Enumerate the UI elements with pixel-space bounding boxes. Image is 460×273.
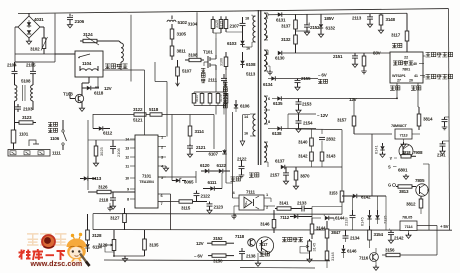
label 2152 <box>310 25 320 30</box>
label 6122 <box>217 163 227 168</box>
label 3152 <box>213 236 223 241</box>
svg-text:2104: 2104 <box>7 63 17 68</box>
svg-text:3141: 3141 <box>279 201 289 206</box>
wire pin5 right <box>158 171 196 183</box>
svg-text:3152: 3152 <box>213 236 223 241</box>
svg-text:3870: 3870 <box>300 174 310 179</box>
capacitor 2141b <box>440 141 450 154</box>
wire AC line y54 <box>15 53 75 55</box>
transistor 7116 <box>359 248 379 270</box>
resistor 3117 <box>405 13 409 52</box>
capacitor 2123 <box>207 202 213 209</box>
svg-text:6137: 6137 <box>275 159 285 164</box>
svg-text:6118: 6118 <box>94 91 104 96</box>
svg-text:7114: 7114 <box>405 224 414 229</box>
label 3150 <box>213 259 223 264</box>
svg-text:2106: 2106 <box>75 19 85 24</box>
svg-text:5118: 5118 <box>149 107 159 112</box>
svg-text:7116: 7116 <box>359 256 369 261</box>
label 3142 <box>298 154 308 159</box>
resistor 3148b <box>325 246 329 268</box>
svg-text:3129: 3129 <box>98 243 108 248</box>
label 3135 <box>149 243 159 248</box>
label 5108 <box>21 79 31 84</box>
label 12V bottom <box>196 241 204 246</box>
svg-text:1111: 1111 <box>52 151 61 156</box>
svg-text:3105: 3105 <box>177 32 187 37</box>
pin 7 <box>158 201 179 206</box>
wire x242 aux <box>240 115 250 146</box>
label 3146 <box>260 222 270 227</box>
pin 13 <box>125 146 135 151</box>
label 6108 <box>246 62 256 67</box>
label 3104 <box>188 22 198 27</box>
svg-text:40: 40 <box>413 62 417 66</box>
wire x226 vertical <box>226 70 233 183</box>
label 3157 <box>337 118 347 123</box>
resistor 3114 <box>188 126 192 136</box>
svg-text:3813: 3813 <box>399 189 409 194</box>
svg-text:3117: 3117 <box>391 33 401 38</box>
svg-text:3148: 3148 <box>330 252 335 261</box>
svg-text:2107: 2107 <box>230 24 240 29</box>
label 2113 <box>352 16 362 21</box>
resistor 3870 <box>293 167 298 189</box>
svg-text:3145: 3145 <box>312 243 317 252</box>
pin 5 <box>266 61 269 66</box>
resistor 3025 <box>94 140 98 161</box>
label 3156 <box>385 248 395 253</box>
svg-text:TEA1504: TEA1504 <box>139 180 154 184</box>
label 2107 <box>230 24 240 29</box>
label 5118 <box>149 107 159 112</box>
svg-text:6145: 6145 <box>360 217 365 226</box>
label 3148b vertical <box>330 252 335 261</box>
resistor 3105 <box>170 24 174 46</box>
resistor 3115p <box>220 16 228 32</box>
svg-text:3812: 3812 <box>406 202 416 207</box>
label 5113 <box>246 72 256 77</box>
label 3124 <box>83 32 93 37</box>
label -6V bottom <box>194 254 203 259</box>
pin1 opto <box>264 192 271 202</box>
label 2134 <box>350 236 360 241</box>
label 2105 <box>26 63 36 68</box>
capacitor 2122b <box>239 160 245 178</box>
label 场同步信号 <box>423 74 453 79</box>
inductor 5102 <box>167 16 176 23</box>
pin 9 <box>127 187 135 192</box>
svg-text:2157: 2157 <box>270 173 280 178</box>
fuse 1101 <box>11 130 16 149</box>
svg-text:3150: 3150 <box>213 259 223 264</box>
label 6106 <box>240 104 250 109</box>
wire +5V <box>382 226 437 256</box>
svg-text:G: G <box>388 183 391 188</box>
label 12V right <box>349 97 357 102</box>
label 2153 <box>302 102 312 107</box>
svg-text:– 6V: – 6V <box>194 254 203 259</box>
transistor T103 <box>63 88 85 111</box>
ground under 3025 <box>93 161 98 166</box>
svg-text:6134: 6134 <box>263 82 273 87</box>
svg-text:3115: 3115 <box>181 206 191 211</box>
capacitor 2141 <box>442 117 450 130</box>
diode 6144 <box>324 215 334 221</box>
resistor 3135 <box>114 230 146 256</box>
svg-text:2154: 2154 <box>303 121 313 126</box>
label 3144 <box>316 226 326 231</box>
resistor 3154 <box>368 226 372 248</box>
svg-text:T101: T101 <box>203 50 213 55</box>
secondary 2 <box>264 50 268 71</box>
svg-text:3153: 3153 <box>329 191 338 196</box>
resistor 3142 <box>310 152 314 167</box>
label 3847 <box>331 230 341 235</box>
diode 6107 <box>196 149 227 154</box>
svg-text:3123: 3123 <box>22 115 32 120</box>
svg-text:3142: 3142 <box>298 154 308 159</box>
pin3 opto <box>231 206 239 219</box>
svg-text:7801: 7801 <box>402 67 411 72</box>
label 3114 <box>195 129 205 134</box>
wire x232 vertical <box>232 112 234 198</box>
potentiometer 3145 <box>300 239 317 262</box>
label 3140 <box>298 140 308 145</box>
svg-text:7111: 7111 <box>246 190 255 195</box>
capacitor 2105 <box>15 62 36 85</box>
svg-text:2155: 2155 <box>301 76 311 81</box>
svg-text:2141: 2141 <box>437 153 446 158</box>
svg-text:3025: 3025 <box>99 147 104 156</box>
diode 6118 <box>82 86 104 96</box>
svg-text:7118: 7118 <box>235 234 245 239</box>
diode 6106 <box>234 100 238 112</box>
label 2121 <box>196 145 206 150</box>
svg-text:3106: 3106 <box>220 58 224 66</box>
label 2133 <box>297 201 307 206</box>
label G pin <box>388 183 396 188</box>
wire 12V drop <box>353 99 355 117</box>
svg-text:6142: 6142 <box>361 195 371 200</box>
svg-text:6112: 6112 <box>103 131 113 136</box>
capacitor 2108 <box>110 140 116 154</box>
resistor 3847 <box>325 221 329 246</box>
label 2142 <box>394 236 404 241</box>
svg-text:7805: 7805 <box>415 178 425 183</box>
capacitor 2133b <box>344 210 356 230</box>
label 6065 <box>184 180 194 185</box>
label 电压调整 <box>282 237 303 242</box>
capacitor 2122 <box>194 191 200 202</box>
wire snub join <box>226 32 252 47</box>
label S pin <box>388 165 397 170</box>
wire verticals to pins <box>103 62 214 181</box>
diode 6122 <box>216 169 230 173</box>
pin 3 <box>158 155 166 160</box>
label 3117 <box>391 33 401 38</box>
label 4031 <box>34 17 44 22</box>
label 2106 <box>75 19 85 24</box>
svg-text:1104: 1104 <box>82 61 92 66</box>
zener 6132 <box>318 14 323 37</box>
label 6144 <box>335 216 345 221</box>
wire x93 vertical <box>92 214 94 230</box>
snubber resistor bank <box>192 70 228 115</box>
label 5102 <box>178 20 188 25</box>
svg-text:6801: 6801 <box>398 168 408 173</box>
svg-text:3127: 3127 <box>110 216 120 221</box>
svg-text:2133: 2133 <box>344 217 349 226</box>
svg-text:41: 41 <box>414 74 418 78</box>
wire mid ground rail y213 <box>93 213 342 216</box>
resistor 3143 <box>320 152 324 167</box>
svg-text:7112: 7112 <box>280 215 290 220</box>
connector 1111 <box>8 150 50 157</box>
regulator U7114 78L05 <box>400 215 417 239</box>
svg-text:83V: 83V <box>373 51 381 56</box>
label 2123 <box>214 205 224 210</box>
label 5107 <box>182 69 192 74</box>
label 7112 <box>280 215 290 220</box>
switch 1106 <box>62 120 67 150</box>
resistor 3104b <box>215 16 223 33</box>
label 6120 <box>200 163 210 168</box>
wire 185V rail <box>296 30 311 32</box>
label 6134 <box>263 82 273 87</box>
capacitor 2103 <box>15 104 21 112</box>
svg-text:5102: 5102 <box>178 20 188 25</box>
wire box drop 12V <box>95 77 99 87</box>
svg-text:6138: 6138 <box>272 131 282 136</box>
resistor 3137 <box>294 15 298 32</box>
ground above 3127 <box>107 203 113 211</box>
svg-text:6135: 6135 <box>273 101 283 106</box>
label 6112 <box>103 131 113 136</box>
capacitor 2153 <box>296 99 302 114</box>
svg-text:6130: 6130 <box>275 56 285 61</box>
svg-text:6120: 6120 <box>200 163 210 168</box>
pin 6 <box>268 96 271 101</box>
svg-text:T103: T103 <box>63 92 73 97</box>
wire right edge vertical <box>449 9 450 231</box>
diode 6130 <box>268 50 390 55</box>
pin 2 <box>266 51 269 56</box>
diode 6121 <box>201 169 216 173</box>
label Y pin <box>390 156 398 161</box>
capacitor 2138 <box>239 248 245 260</box>
svg-text:3146: 3146 <box>260 222 270 227</box>
svg-text:3124: 3124 <box>83 32 93 37</box>
label 3115 <box>181 206 191 211</box>
label 待机 above <box>392 43 402 48</box>
svg-text:3811: 3811 <box>177 49 187 54</box>
svg-text:7115: 7115 <box>383 216 388 224</box>
diode 6131 <box>268 12 282 16</box>
wire box bottom <box>82 77 89 88</box>
label 2103 <box>23 107 33 112</box>
wire degauss feed x131 <box>131 15 155 82</box>
label 3128 <box>92 233 102 238</box>
label 2108 vertical <box>116 148 121 157</box>
resistor 3150 <box>208 254 234 257</box>
pin 1 <box>266 15 269 20</box>
optocoupler U7111 <box>239 195 264 210</box>
label 6146 <box>347 249 357 254</box>
svg-text:6146: 6146 <box>347 249 357 254</box>
svg-text:6107: 6107 <box>209 152 219 157</box>
potentiometer 3129 <box>105 230 116 256</box>
resistor 5118 <box>150 113 162 116</box>
svg-text:2832: 2832 <box>326 137 336 142</box>
svg-text:3122: 3122 <box>133 107 143 112</box>
label +5V <box>440 224 449 229</box>
svg-text:3140: 3140 <box>298 140 308 145</box>
pin 9 <box>266 144 269 149</box>
svg-text:6106: 6106 <box>240 104 250 109</box>
svg-text:3126: 3126 <box>98 185 108 190</box>
svg-text:4031: 4031 <box>34 17 44 22</box>
pin 4 <box>158 164 169 172</box>
label 6135 <box>273 101 283 106</box>
label 1111 <box>52 151 61 156</box>
label 保护 <box>260 252 270 257</box>
svg-text:WT62P1: WT62P1 <box>392 74 406 78</box>
wire 7801 pin27 down <box>396 83 398 99</box>
svg-text:3114: 3114 <box>195 129 205 134</box>
label 1101 <box>19 132 29 137</box>
svg-text:6122: 6122 <box>217 163 227 168</box>
resistor 3123 <box>15 121 36 124</box>
label 2832 <box>326 137 336 142</box>
resistor 3104a <box>211 16 215 33</box>
svg-text:2105: 2105 <box>26 63 36 68</box>
capacitor 2155 <box>295 79 301 91</box>
svg-text:2118: 2118 <box>99 198 109 203</box>
diode 6112 <box>93 126 110 130</box>
wire T101 drain <box>213 33 221 55</box>
svg-text:2133: 2133 <box>297 201 307 206</box>
regulator U7113 78M08CT <box>391 123 420 147</box>
svg-text:3109: 3109 <box>219 94 223 102</box>
wire vertical x55 <box>33 14 55 62</box>
label 2151 <box>333 54 343 59</box>
ground below bridge <box>26 38 31 44</box>
svg-text:7908: 7908 <box>413 150 423 155</box>
svg-text:3135: 3135 <box>149 243 159 248</box>
label 6107 <box>209 152 219 157</box>
line filter choke 5108 <box>15 85 34 130</box>
pin 14 <box>125 137 135 142</box>
label 12V <box>104 86 112 91</box>
degauss relay 1104 <box>55 51 103 77</box>
resistor 3157 <box>352 116 392 134</box>
resistor 3812 <box>419 196 423 214</box>
wire left vertical x15 <box>14 27 16 62</box>
pin 2 <box>158 145 166 150</box>
bridge rectifier 4031 <box>15 13 44 38</box>
svg-text:3104: 3104 <box>188 22 198 27</box>
pin4 opto <box>233 190 240 198</box>
resistor 3108 <box>185 12 204 62</box>
svg-text:7113: 7113 <box>400 133 409 138</box>
label 2141 <box>437 153 446 158</box>
svg-text:3115: 3115 <box>220 21 224 29</box>
resistor 3140 <box>310 138 314 152</box>
label 3153 <box>329 191 338 196</box>
ground under 2121 <box>187 152 192 157</box>
label 2138 <box>246 254 256 259</box>
label 3811 <box>177 49 187 54</box>
svg-text:+ 5V: + 5V <box>440 224 449 229</box>
svg-text:www.dzsc.com: www.dzsc.com <box>30 260 83 268</box>
label 3126 <box>98 185 108 190</box>
label -12V <box>317 113 328 118</box>
svg-text:3108: 3108 <box>188 53 198 58</box>
label 83V <box>373 51 381 56</box>
label 3812 <box>406 202 416 207</box>
wire lower rail y229 <box>93 229 452 232</box>
wire x93 down <box>92 114 94 129</box>
label 灯丝 <box>318 79 328 84</box>
svg-text:3818: 3818 <box>402 150 411 155</box>
capacitor 2154 <box>296 114 302 132</box>
pin 12 <box>125 155 135 160</box>
svg-text:10: 10 <box>125 176 129 181</box>
label 行同步信号 <box>423 52 453 57</box>
svg-text:12V: 12V <box>196 241 204 246</box>
svg-text:185V: 185V <box>324 16 334 21</box>
svg-text:6065: 6065 <box>184 180 194 185</box>
svg-text:5121: 5121 <box>133 118 143 123</box>
transistor 7117 <box>256 237 273 254</box>
wire 7801 pin20 down <box>418 83 419 107</box>
label 2157 <box>270 173 280 178</box>
svg-text:2151: 2151 <box>333 54 343 59</box>
ground 7117 <box>255 253 260 266</box>
pin 5 <box>158 175 166 180</box>
arrow down 5107 <box>176 80 180 86</box>
svg-text:78M08CT: 78M08CT <box>391 123 408 128</box>
label 待机 below <box>390 86 400 91</box>
primary winding <box>252 15 256 47</box>
diode 6114 <box>85 243 89 252</box>
label 3143 <box>326 154 336 159</box>
svg-text:3847: 3847 <box>331 230 341 235</box>
load resistor <box>361 53 367 74</box>
resistor 3811 <box>170 46 174 60</box>
svg-text:3132: 3132 <box>281 37 291 42</box>
zener 6141 <box>374 143 386 157</box>
svg-text:2123: 2123 <box>214 205 224 210</box>
capacitor 2157 <box>283 167 289 184</box>
degaussing coil <box>119 41 123 70</box>
capacitor 2111 <box>221 74 227 115</box>
label 2118 <box>99 198 109 203</box>
svg-text:1101: 1101 <box>19 132 29 137</box>
diode 6111 <box>203 173 222 191</box>
capacitor 2832 <box>319 137 325 152</box>
svg-text:12V: 12V <box>349 97 357 102</box>
wire 185V rail B <box>268 13 407 15</box>
aux winding <box>250 114 256 136</box>
label 3105 <box>177 32 187 37</box>
svg-text:6108: 6108 <box>246 62 256 67</box>
svg-text:2122: 2122 <box>237 157 247 162</box>
secondary 1 <box>264 13 268 40</box>
wire x88 feed <box>87 120 89 190</box>
label 185V <box>324 16 334 21</box>
